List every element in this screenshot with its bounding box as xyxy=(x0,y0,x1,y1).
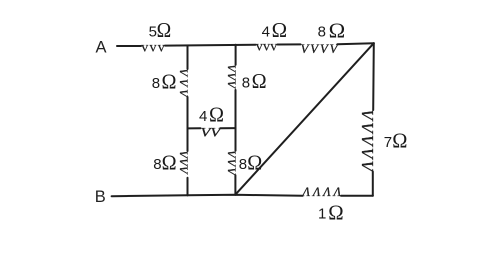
wire: middle rung right segment xyxy=(220,127,235,129)
svg-text:vvv: vvv xyxy=(141,41,165,56)
wire: right vertical upper segment xyxy=(372,43,375,110)
svg-text:VVVV: VVVV xyxy=(301,41,340,56)
svg-text:Ω: Ω xyxy=(329,18,346,42)
wire: node A lead xyxy=(117,45,141,47)
wire: bottom rail from B to 1Ω xyxy=(112,195,303,196)
svg-text:Ω: Ω xyxy=(209,103,224,127)
wire: middle branch bottom stub xyxy=(234,175,236,195)
wire: left branch segment below middle rung xyxy=(187,128,189,151)
svg-text:Ω: Ω xyxy=(247,151,262,175)
svg-text:Ω: Ω xyxy=(272,18,288,42)
wire: middle rung left segment xyxy=(188,127,201,129)
svg-text:VV: VV xyxy=(201,125,223,140)
wire: middle branch upper stub from top rail xyxy=(235,45,237,65)
svg-text:8: 8 xyxy=(153,156,161,173)
wire: diagonal from bottom junction to top-right corner xyxy=(235,43,373,194)
svg-text:4: 4 xyxy=(199,108,207,125)
svg-text:B: B xyxy=(95,188,106,206)
svg-text:ΛΛΛΛ: ΛΛΛΛ xyxy=(302,185,342,199)
svg-text:ΛΛΛΛΛ: ΛΛΛΛΛ xyxy=(358,109,377,173)
svg-text:8: 8 xyxy=(318,24,326,41)
svg-text:4: 4 xyxy=(262,24,270,41)
svg-text:1: 1 xyxy=(318,206,326,223)
svg-text:ΛΛΛ: ΛΛΛ xyxy=(177,150,191,175)
wire: middle branch segment to middle rung xyxy=(235,90,237,128)
wire: bottom rail from 1Ω to bottom-right corner xyxy=(341,195,373,197)
wire: top rail between 5Ω and 4Ω xyxy=(165,44,256,47)
wire: top rail to top-right corner xyxy=(337,43,373,44)
wire: middle branch segment below middle rung xyxy=(235,128,237,151)
svg-text:ΛΛΛ: ΛΛΛ xyxy=(225,64,239,89)
svg-text:ΛΛΛ: ΛΛΛ xyxy=(224,150,238,176)
svg-text:Ω: Ω xyxy=(157,18,172,42)
wire: right vertical lower segment xyxy=(372,172,374,196)
svg-text:Ω: Ω xyxy=(252,69,267,93)
svg-text:Ω: Ω xyxy=(162,151,177,175)
svg-text:8: 8 xyxy=(152,75,160,92)
svg-text:8: 8 xyxy=(242,75,250,92)
wire: left branch middle segment xyxy=(187,97,189,128)
svg-text:7: 7 xyxy=(384,134,392,151)
svg-text:Ω: Ω xyxy=(162,70,177,94)
svg-text:Ω: Ω xyxy=(328,201,343,225)
wire: left branch upper stub from top rail xyxy=(187,46,189,69)
svg-text:ΛΛΛ: ΛΛΛ xyxy=(177,68,191,98)
svg-text:A: A xyxy=(96,39,107,57)
svg-text:8: 8 xyxy=(239,156,247,173)
wire: top rail between 4Ω and 8Ω xyxy=(278,43,301,45)
svg-text:Ω: Ω xyxy=(392,128,407,152)
wire: left branch bottom stub xyxy=(187,178,189,196)
